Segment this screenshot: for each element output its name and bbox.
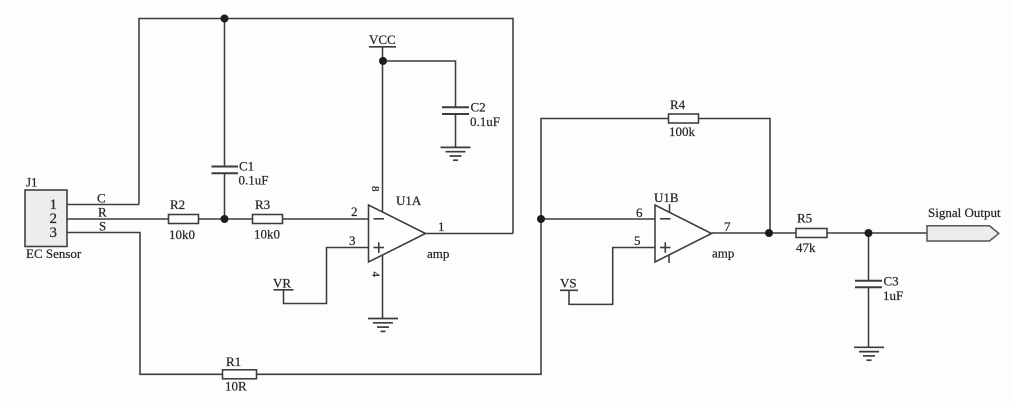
wire R5 to C3 node xyxy=(827,232,869,234)
svg-text:Signal Output: Signal Output xyxy=(928,205,1001,220)
svg-text:6: 6 xyxy=(636,205,643,220)
wire C1 bottom to R net xyxy=(224,174,226,220)
svg-text:EC Sensor: EC Sensor xyxy=(26,246,82,261)
node VCC junction xyxy=(379,57,387,65)
svg-text:7: 7 xyxy=(724,219,731,234)
svg-text:1uF: 1uF xyxy=(883,288,903,303)
svg-text:amp: amp xyxy=(427,246,449,261)
svg-text:S: S xyxy=(99,219,106,234)
wire C3 bottom lead xyxy=(868,288,870,348)
wire R4 right leg down to output node xyxy=(699,119,771,234)
svg-text:5: 5 xyxy=(634,233,641,248)
minus input mark xyxy=(374,218,385,220)
power VCC xyxy=(369,32,396,47)
port Signal Output xyxy=(927,205,1001,241)
wire node to U1B pin6 xyxy=(541,218,655,220)
resistor R3 xyxy=(253,197,283,242)
svg-text:10k0: 10k0 xyxy=(254,227,280,242)
svg-text:0.1uF: 0.1uF xyxy=(239,173,269,188)
svg-text:100k: 100k xyxy=(669,124,696,139)
capacitor C1 xyxy=(212,159,269,188)
wire U1A output xyxy=(426,233,514,235)
power VR xyxy=(273,276,294,291)
wire R4 left leg xyxy=(541,119,669,220)
svg-text:C: C xyxy=(97,191,106,206)
ground under C2 xyxy=(441,147,471,160)
wire C pin to left vertical xyxy=(67,204,139,206)
resistor R1 xyxy=(223,354,257,394)
svg-text:10k0: 10k0 xyxy=(169,227,195,242)
svg-text:C3: C3 xyxy=(884,274,899,289)
node junction R5/C3/output xyxy=(865,229,873,237)
svg-text:R5: R5 xyxy=(797,211,812,226)
plus input mark xyxy=(374,247,385,249)
svg-text:C1: C1 xyxy=(239,159,254,174)
svg-text:U1A: U1A xyxy=(396,193,422,208)
wire R3 to U1A pin2 xyxy=(283,218,369,220)
ground under U1A xyxy=(368,319,398,332)
svg-text:VR: VR xyxy=(273,276,291,291)
wire U1B output xyxy=(712,232,770,234)
capacitor C3 xyxy=(855,274,903,304)
connector J1 xyxy=(25,175,82,262)
capacitor C2 xyxy=(442,100,500,130)
svg-text:U1B: U1B xyxy=(654,190,679,205)
op-amp U1B xyxy=(634,190,734,263)
svg-text:amp: amp xyxy=(712,246,734,261)
op-amp U1A xyxy=(349,186,449,278)
svg-text:J1: J1 xyxy=(26,175,38,190)
svg-text:2: 2 xyxy=(351,204,358,219)
wire top rail xyxy=(139,19,513,234)
wire C3 top lead xyxy=(868,233,870,281)
minus input mark xyxy=(660,218,671,220)
wire R2 to R3 xyxy=(199,218,253,220)
node junction top rail / C1 xyxy=(221,15,229,23)
wire R1 to right vertical up to node xyxy=(257,219,542,374)
ground under C3 xyxy=(854,347,884,360)
svg-text:R1: R1 xyxy=(226,354,241,369)
pin 8 stub xyxy=(669,204,671,212)
resistor R2 xyxy=(169,197,199,242)
svg-text:VS: VS xyxy=(560,276,577,291)
resistor R5 xyxy=(796,211,827,256)
svg-text:4: 4 xyxy=(370,272,382,278)
wire VCC stub down to U1A pin8 xyxy=(382,47,384,212)
svg-text:0.1uF: 0.1uF xyxy=(470,114,500,129)
svg-text:VCC: VCC xyxy=(369,32,396,47)
svg-text:10R: 10R xyxy=(225,379,247,394)
pin 4 stub xyxy=(668,255,670,263)
wire VR to U1A pin3 xyxy=(284,248,369,304)
svg-text:8: 8 xyxy=(369,186,381,192)
wire VS to U1B pin5 xyxy=(569,248,655,305)
svg-text:C2: C2 xyxy=(471,100,486,115)
wire S pin down to bottom rail xyxy=(67,233,223,375)
svg-text:R2: R2 xyxy=(170,197,185,212)
wire VCC to C2 xyxy=(383,61,456,107)
svg-text:R4: R4 xyxy=(670,97,686,112)
resistor R4 xyxy=(669,97,699,139)
power VS xyxy=(560,276,578,291)
node junction R2/R3/C1 xyxy=(221,215,229,223)
wire C2 to ground xyxy=(455,114,457,148)
node junction R4/pin6/R1 xyxy=(537,215,545,223)
plus input mark xyxy=(660,247,671,249)
wire R pin to R2 xyxy=(67,218,169,220)
svg-text:47k: 47k xyxy=(796,240,816,255)
wire output node to R5 xyxy=(769,232,796,234)
wire U1A pin4 to ground xyxy=(382,255,384,319)
node junction U1B out/R4/R5 xyxy=(765,229,773,237)
svg-text:R3: R3 xyxy=(255,197,270,212)
svg-text:R: R xyxy=(98,205,107,220)
svg-text:3: 3 xyxy=(349,233,356,248)
svg-text:1: 1 xyxy=(438,219,445,234)
wire C1 drop from top rail xyxy=(224,19,226,167)
svg-text:3: 3 xyxy=(50,225,58,241)
wire C3 node to flag xyxy=(869,232,928,234)
